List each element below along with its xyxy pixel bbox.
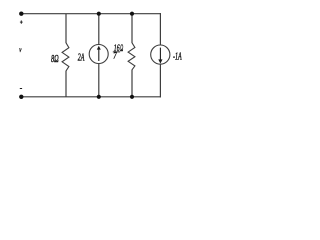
wire branch R2 top — [131, 14, 133, 43]
label v — [19, 46, 21, 54]
minus polarity mark — [20, 88, 22, 90]
resistor R2 16/7 ohm zigzag — [128, 43, 135, 70]
node junction top R2 — [130, 12, 134, 16]
wire right edge upper — [159, 13, 161, 45]
svg-text:8Ω: 8Ω — [51, 52, 59, 64]
resistor R1 8ohm zigzag — [62, 43, 69, 71]
plus polarity mark — [20, 20, 23, 23]
label 2A — [78, 51, 85, 63]
current source I1 2A circle — [89, 45, 108, 64]
wire top rail — [21, 13, 161, 15]
current source I1 arrow up — [98, 49, 100, 61]
svg-text:2A: 2A — [78, 51, 85, 63]
wire branch R1 top — [65, 14, 67, 43]
svg-text:-1A: -1A — [173, 50, 182, 62]
node junction bottom I1 — [97, 95, 101, 99]
wire branch I1 top — [98, 14, 100, 45]
wire bottom rail — [21, 96, 161, 98]
current source I2 arrow down — [159, 48, 161, 60]
fraction bar — [113, 51, 120, 53]
node terminal top-left — [19, 12, 23, 16]
wire branch I1 bottom — [98, 63, 100, 96]
label -1A — [173, 50, 182, 62]
svg-text:v: v — [19, 46, 21, 54]
svg-text:Ω: Ω — [120, 42, 123, 54]
label 8 ohm — [51, 52, 59, 64]
wire branch R1 bottom — [65, 71, 67, 97]
current source I2 -1A circle — [151, 45, 170, 64]
label 7 denominator — [113, 51, 117, 61]
node junction top I1 — [97, 12, 101, 16]
label 16 numerator — [114, 42, 120, 53]
wire right edge lower — [159, 64, 161, 97]
node junction bottom R2 — [130, 95, 134, 99]
wire branch R2 bottom — [131, 70, 133, 97]
node terminal bottom-left — [19, 95, 23, 99]
label ohm beside fraction — [120, 42, 123, 54]
